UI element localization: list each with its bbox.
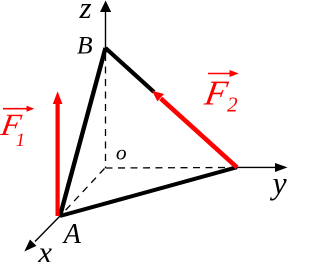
svg-text:A: A [62,219,82,250]
svg-text:y: y [270,166,287,201]
svg-text:2: 2 [227,93,238,117]
svg-text:B: B [77,30,93,59]
svg-text:o: o [116,140,127,164]
svg-text:x: x [37,234,52,262]
svg-text:z: z [79,0,92,25]
svg-text:1: 1 [16,131,25,151]
